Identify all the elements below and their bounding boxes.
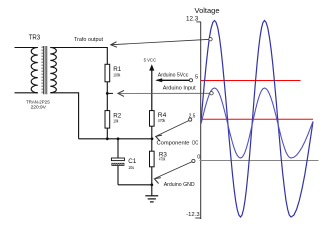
svg-text:0: 0 <box>197 155 200 161</box>
svg-text:5: 5 <box>195 75 198 81</box>
svg-text:470k: 470k <box>158 118 166 123</box>
svg-text:100k: 100k <box>113 72 121 77</box>
svg-text:10k: 10k <box>113 119 119 124</box>
svg-text:Componente: Componente <box>157 141 191 147</box>
svg-text:5 VCC: 5 VCC <box>144 58 157 63</box>
svg-text:Arduino Input: Arduino Input <box>163 85 196 91</box>
svg-text:Arduino 5Vcc: Arduino 5Vcc <box>158 73 189 79</box>
svg-text:TR3: TR3 <box>29 32 41 41</box>
svg-text:220:9V: 220:9V <box>31 104 47 109</box>
svg-text:DC: DC <box>192 141 199 147</box>
svg-text:Arduino GND: Arduino GND <box>164 182 195 188</box>
svg-text:Voltage: Voltage <box>195 6 220 15</box>
svg-text:12.3: 12.3 <box>186 16 199 22</box>
svg-text:470k: 470k <box>159 156 166 161</box>
svg-text:Trafo output: Trafo output <box>74 37 103 43</box>
svg-text:-12.3: -12.3 <box>186 212 199 218</box>
svg-text:10u: 10u <box>128 165 135 170</box>
